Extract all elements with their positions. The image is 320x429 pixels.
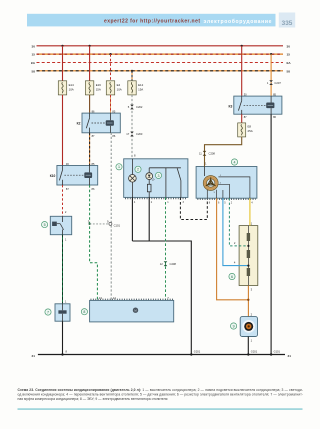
svg-text:3: 3: [158, 174, 160, 178]
svg-text:G201: G201: [251, 349, 258, 353]
pressure switch 5: [50, 216, 71, 234]
panel switch: [149, 167, 181, 169]
svg-text:13: 13: [99, 296, 102, 300]
wire panel pin1 to ECU pin7 (green): [165, 197, 167, 300]
svg-text:14: 14: [113, 296, 116, 300]
label 8: [81, 309, 87, 315]
svg-text:Е4: Е4: [117, 83, 121, 87]
label 9: [231, 323, 237, 329]
svg-text:Е12: Е12: [138, 83, 144, 87]
compressor clutch 7: [55, 304, 70, 321]
svg-text:58: 58: [32, 69, 36, 73]
wire K2 pin86b to connector C101 (white): [110, 133, 112, 223]
wire clutch to ground: [62, 321, 64, 354]
relay K10: [57, 166, 98, 186]
wire fan to resistor pin4 (blue): [223, 198, 249, 265]
svg-text:1: 1: [118, 165, 120, 169]
svg-text:С207: С207: [274, 81, 281, 85]
bus 15: [37, 53, 284, 55]
svg-text:31: 31: [288, 354, 292, 358]
wire bus30 to fuse E14: [62, 46, 64, 81]
wire K3 pin86 to ground G101 (black): [270, 114, 272, 354]
heater motor 9: [240, 317, 257, 337]
svg-text:15: 15: [287, 53, 291, 57]
connector C208 pin11: [203, 151, 207, 156]
svg-text:Е16: Е16: [96, 83, 102, 87]
wire K10 pin86 down (green): [90, 185, 98, 300]
node bus30/E16: [89, 45, 91, 47]
wire panel join to ground G201: [132, 241, 191, 355]
ECU 8: [90, 300, 174, 322]
fuse E8: [241, 114, 243, 123]
ground nodes: [61, 353, 63, 355]
wire pressure switch to clutch (dark green): [62, 235, 64, 304]
wire bus58 to fuse E12: [131, 71, 133, 81]
svg-text:2: 2: [137, 168, 139, 172]
node bus30/E14: [61, 45, 63, 47]
svg-text:G101: G101: [274, 349, 281, 353]
wire fuse E8 to fan unit pin1 (brown): [205, 137, 242, 167]
wire C101 jumper: [90, 223, 109, 225]
label 7: [45, 309, 51, 315]
fuse E4: [106, 81, 114, 95]
wire panel pin3 to fan unit (black dashed): [180, 197, 207, 219]
svg-text:30: 30: [32, 44, 36, 48]
control panel 1: [124, 159, 188, 198]
svg-text:17: 17: [126, 132, 129, 136]
wire bus15 to relay K3 pin85: [270, 54, 272, 96]
svg-text:58: 58: [287, 69, 291, 73]
svg-text:10А: 10А: [117, 87, 122, 91]
wire fuse E16 to relay K2 pin86: [89, 95, 91, 113]
label 1: [116, 164, 122, 170]
svg-text:ная муфта компрессора кондицио: ная муфта компрессора кондиционера; 8 — …: [18, 397, 168, 401]
svg-text:expert22 for http://yourtracke: expert22 for http://yourtracker.net: [104, 19, 200, 25]
fan unit internal wires: [218, 177, 250, 198]
svg-text:15А: 15А: [96, 87, 101, 91]
svg-text:7: 7: [47, 310, 49, 314]
wire fuse E14 to relay K10 pin30: [62, 95, 64, 166]
wire panel pin4 down (black): [131, 197, 133, 241]
node bus30/K3: [241, 45, 243, 47]
fuse E16: [85, 81, 93, 95]
ground bus 31: [38, 354, 285, 356]
fuse E14: [58, 81, 66, 95]
wire motor to ground G201: [247, 337, 249, 355]
svg-text:11: 11: [199, 152, 202, 156]
svg-text:25А: 25А: [248, 129, 253, 133]
wire resistor pin3 to motor (orange): [247, 286, 249, 317]
node orange join: [247, 299, 249, 301]
svg-text:4: 4: [234, 160, 236, 164]
connector C208 pin12: [164, 261, 168, 266]
svg-text:С203: С203: [136, 132, 143, 136]
svg-text:5: 5: [44, 223, 46, 227]
svg-text:С202: С202: [136, 105, 143, 109]
resistor in panel: [147, 184, 151, 192]
resistor block 6: [239, 226, 258, 286]
label 5: [42, 222, 48, 228]
relay K3: [234, 96, 282, 114]
header bar: [27, 14, 276, 27]
bus 30: [37, 45, 284, 47]
connector C203 pin17: [130, 132, 134, 137]
wire panel pin2 down (black): [148, 197, 150, 241]
svg-text:од включения кондиционера; 4 —: од включения кондиционера; 4 — переключа…: [18, 392, 304, 396]
connector C207 pin1: [269, 80, 273, 85]
wire fan to resistor pin1 (yellow): [249, 198, 251, 225]
page number tile: [279, 13, 295, 28]
wire fan to resistor pin2 (teal dashed): [229, 198, 248, 246]
LED 3: [146, 173, 153, 180]
wire fuse E12 to lamp pin8 (white): [131, 95, 133, 159]
svg-text:электрооборудование: электрооборудование: [204, 18, 272, 25]
svg-text:С101: С101: [114, 223, 121, 227]
label 2: [135, 166, 141, 172]
wire K10 pin87 to pressure switch pin2 (red dashed): [62, 185, 64, 216]
wire C101 to ECU pin14 (white): [110, 225, 112, 300]
connector C101: [109, 222, 112, 225]
lamp 2: [131, 159, 133, 175]
svg-text:С208: С208: [209, 152, 216, 156]
footer rule: [18, 408, 303, 411]
wire bus30 to fuse E16: [89, 46, 91, 81]
svg-text:К2: К2: [77, 121, 81, 125]
wire bus30 to relay K3 pin30: [241, 46, 243, 96]
svg-text:К10: К10: [50, 174, 56, 178]
wire fan to clutch line (orange): [217, 198, 249, 300]
svg-text:Схема 23. Соединения системы к: Схема 23. Соединения системы кондиционир…: [18, 388, 304, 392]
svg-text:335: 335: [282, 20, 293, 27]
label 6: [229, 273, 235, 279]
svg-text:15А: 15А: [138, 87, 143, 91]
relay K2: [82, 113, 120, 133]
svg-text:30: 30: [287, 44, 291, 48]
wire K2 pin87 to K10 pin85 (black/orange): [89, 133, 91, 166]
svg-text:Е14: Е14: [69, 83, 75, 87]
svg-text:12: 12: [160, 262, 163, 266]
svg-text:31: 31: [32, 354, 36, 358]
node green/C101 jumper: [89, 223, 91, 225]
node bus15/K3: [270, 53, 272, 55]
node bus58/E12: [131, 70, 133, 72]
svg-text:С208: С208: [170, 262, 177, 266]
node bus15/E4: [109, 53, 111, 55]
wire fuse E4 to relay K2 pin85: [110, 95, 112, 113]
label 3: [155, 172, 161, 178]
bus KA: [37, 62, 284, 64]
connector C202 pin5: [130, 105, 134, 110]
svg-text:9: 9: [233, 324, 235, 328]
fuse E12: [128, 81, 136, 95]
svg-text:10А: 10А: [69, 87, 74, 91]
label 4: [231, 159, 237, 165]
svg-text:Е8: Е8: [248, 125, 252, 129]
svg-text:6: 6: [231, 275, 233, 279]
fan symbol: [204, 167, 206, 177]
wire bus15 to fuse E4: [110, 54, 112, 81]
svg-text:К3: К3: [228, 104, 232, 108]
fan unit 4: [196, 167, 257, 199]
svg-text:8: 8: [83, 310, 85, 314]
bus 58: [37, 70, 284, 72]
svg-text:15: 15: [32, 53, 36, 57]
svg-text:G201: G201: [194, 349, 201, 353]
